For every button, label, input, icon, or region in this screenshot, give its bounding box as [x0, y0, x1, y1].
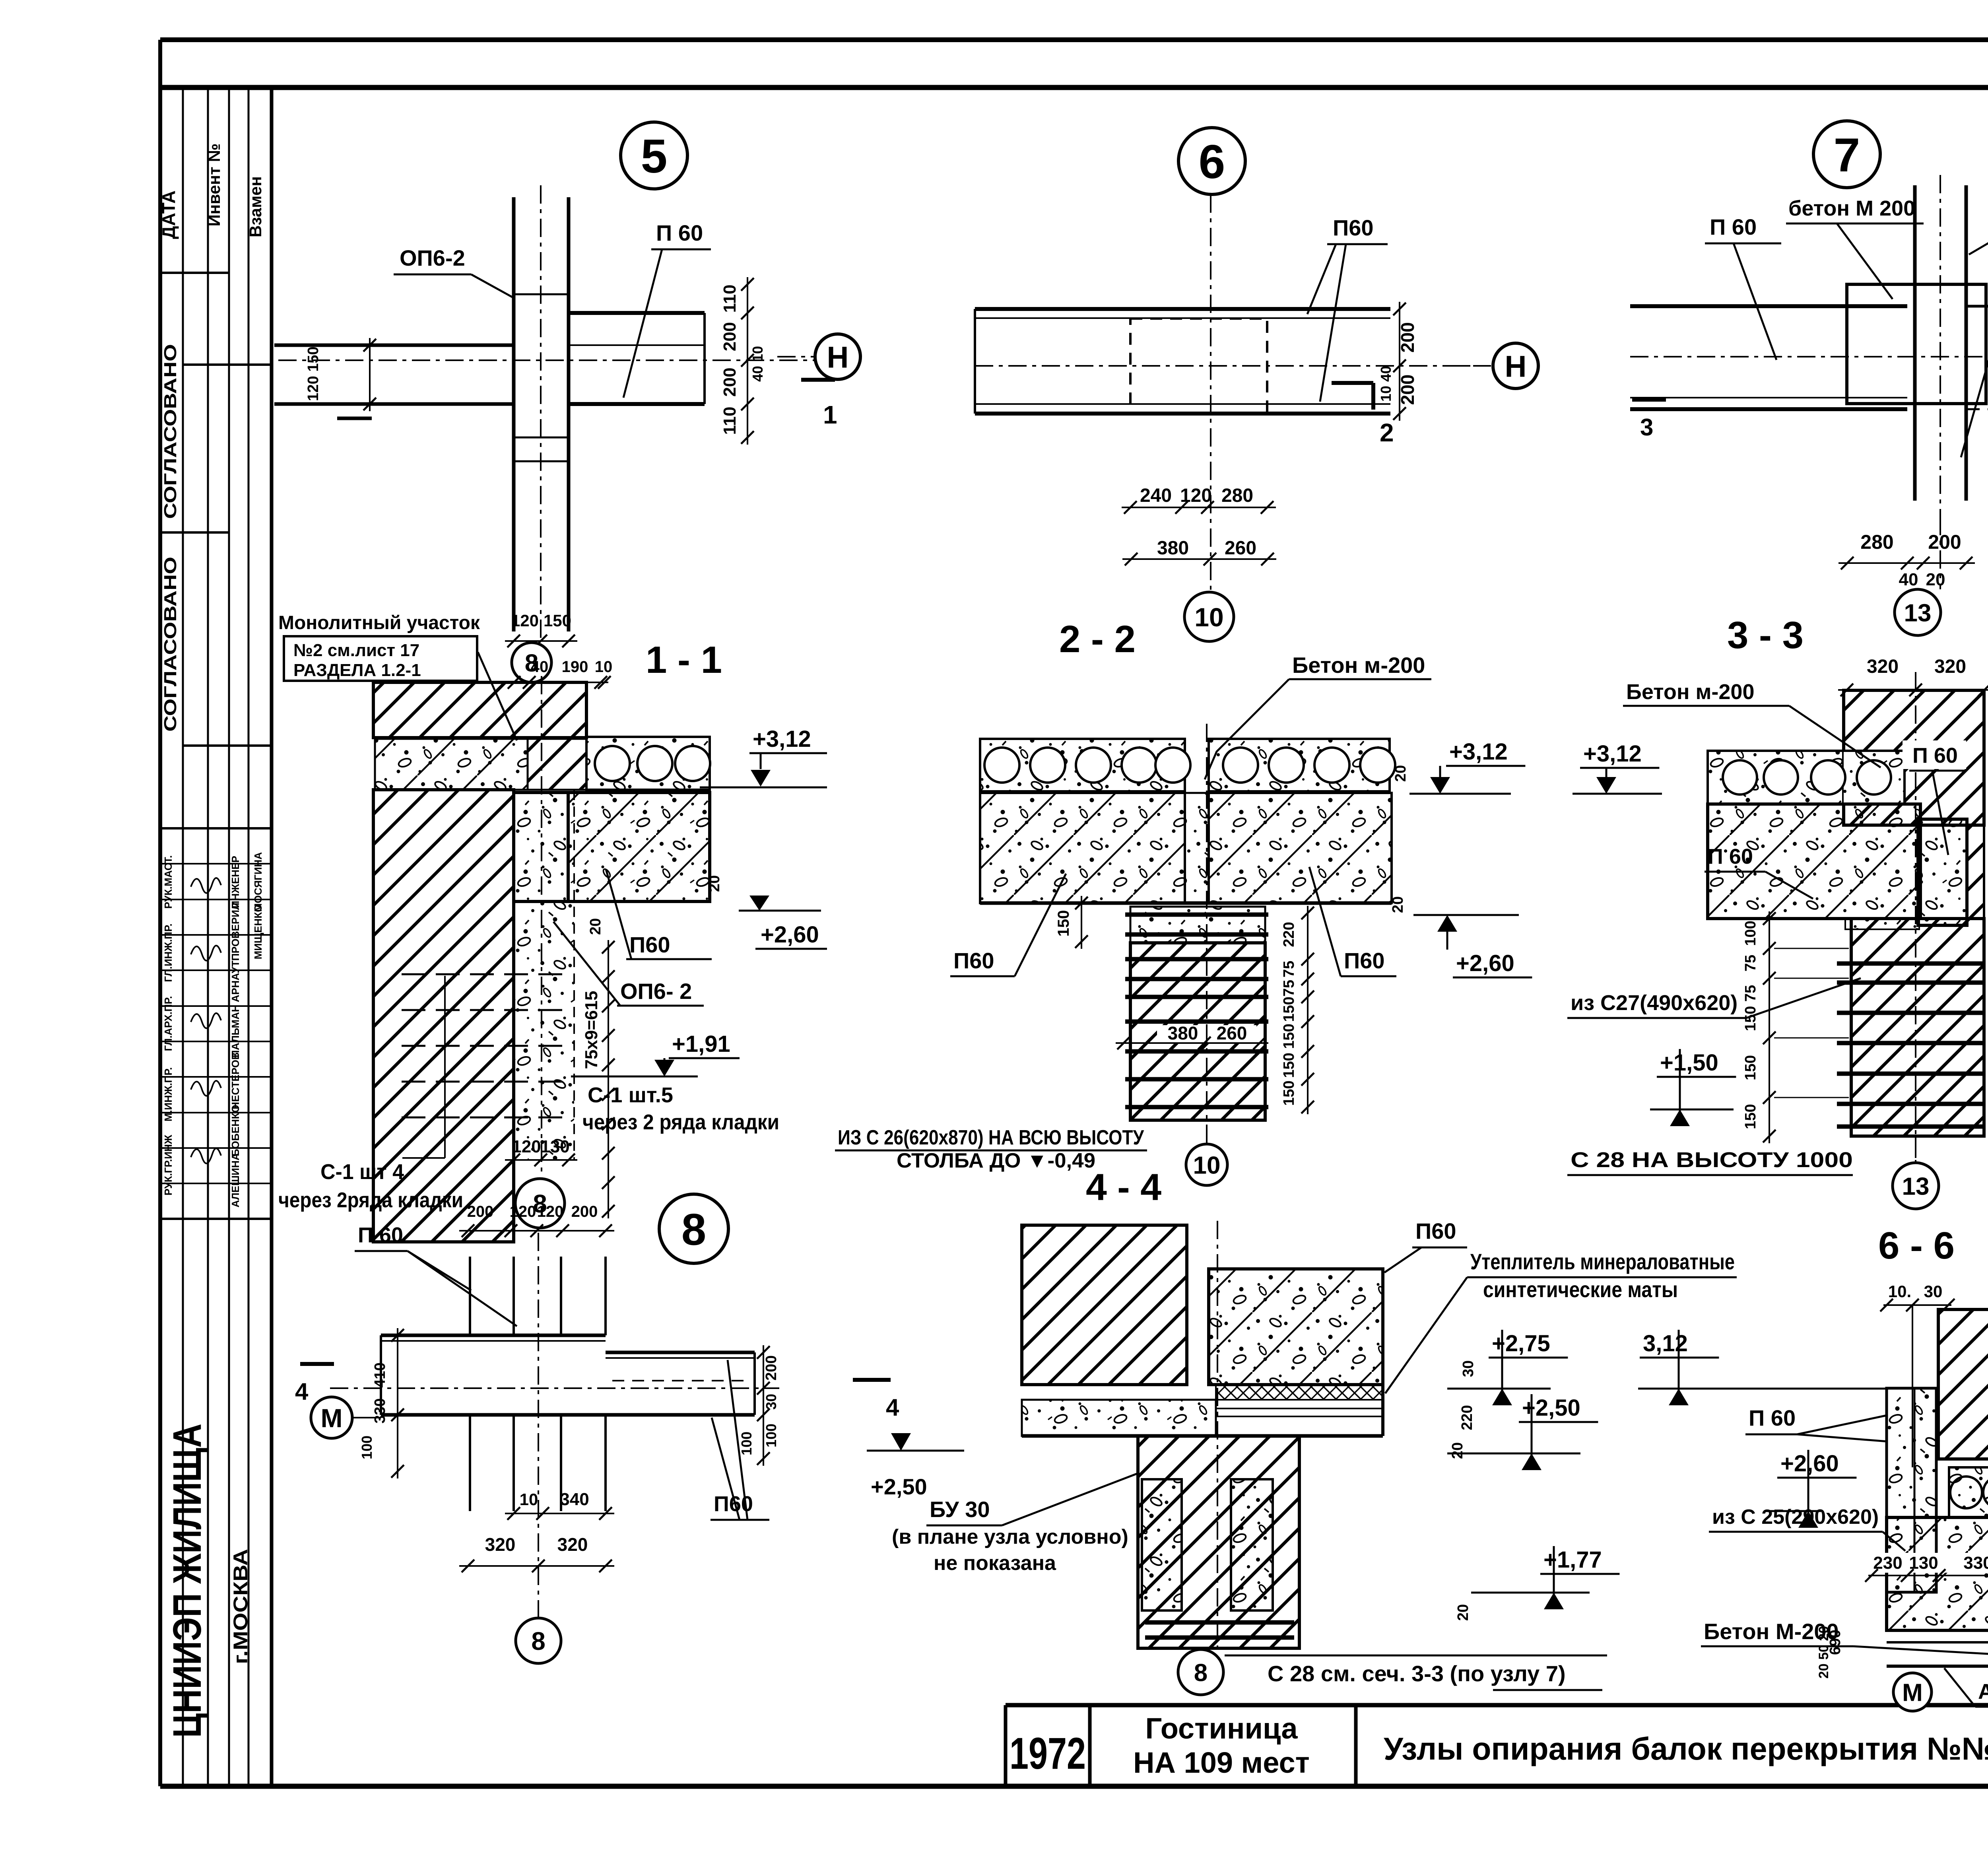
svg-text:13: 13: [1902, 1173, 1930, 1200]
svg-text:через 2ряда кладки: через 2ряда кладки: [278, 1188, 463, 1212]
svg-text:Бетон м-200: Бетон м-200: [1626, 680, 1755, 704]
svg-text:75: 75: [1281, 961, 1297, 977]
svg-text:200: 200: [763, 1355, 780, 1380]
svg-text:20: 20: [1455, 1604, 1472, 1621]
svg-text:1: 1: [823, 400, 837, 429]
svg-text:150: 150: [1281, 1053, 1297, 1078]
svg-text:380: 380: [1157, 538, 1189, 559]
svg-text:10: 10: [1194, 602, 1223, 632]
svg-text:8: 8: [1194, 1659, 1208, 1686]
svg-text:40: 40: [1899, 570, 1918, 589]
svg-text:120 150: 120 150: [305, 346, 322, 401]
svg-text:13: 13: [1904, 599, 1932, 627]
svg-text:П 60: П 60: [656, 220, 703, 245]
svg-text:Гостиница: Гостиница: [1145, 1712, 1298, 1745]
svg-text:75: 75: [1742, 955, 1759, 971]
svg-text:200: 200: [467, 1203, 494, 1220]
svg-text:Утеплитель минераловатные: Утеплитель минераловатные: [1470, 1249, 1735, 1274]
svg-text:220: 220: [1459, 1405, 1475, 1430]
svg-text:6 - 6: 6 - 6: [1878, 1224, 1955, 1267]
svg-text:С 28 НА ВЫСОТУ 1000: С 28 НА ВЫСОТУ 1000: [1571, 1148, 1853, 1172]
svg-text:110: 110: [720, 407, 740, 435]
svg-text:П60: П60: [953, 948, 994, 973]
svg-text:4 - 4: 4 - 4: [1086, 1166, 1161, 1208]
svg-text:П 60: П 60: [1912, 744, 1958, 767]
svg-text:75х9=615: 75х9=615: [582, 991, 601, 1069]
svg-text:+3,12: +3,12: [1449, 739, 1508, 765]
svg-text:200: 200: [720, 367, 740, 396]
svg-text:2 - 2: 2 - 2: [1059, 618, 1136, 661]
svg-text:3: 3: [1640, 414, 1653, 441]
svg-text:МИЩЕНКО: МИЩЕНКО: [252, 904, 264, 959]
svg-text:200: 200: [1928, 531, 1961, 553]
svg-text:П 60: П 60: [1708, 845, 1753, 868]
svg-text:М: М: [1902, 1679, 1923, 1706]
svg-text:150: 150: [1281, 1024, 1297, 1049]
svg-text:200: 200: [720, 322, 740, 351]
svg-text:П60: П60: [1333, 215, 1374, 240]
svg-text:200: 200: [571, 1203, 598, 1220]
svg-text:4: 4: [295, 1378, 309, 1405]
svg-text:Узлы опирания балок перекрыт: Узлы опирания балок перекрытия №№ 5,6,7,…: [1384, 1731, 1988, 1766]
svg-text:260: 260: [1217, 1023, 1247, 1043]
svg-text:340: 340: [560, 1490, 589, 1509]
svg-text:20: 20: [587, 918, 604, 935]
svg-text:320: 320: [557, 1534, 588, 1555]
svg-text:№2 см.лист 17: №2 см.лист 17: [293, 641, 419, 660]
svg-text:150: 150: [1742, 1104, 1759, 1129]
svg-text:6: 6: [1199, 135, 1225, 188]
svg-text:3 - 3: 3 - 3: [1727, 614, 1804, 657]
svg-text:100: 100: [359, 1436, 375, 1459]
svg-text:100: 100: [763, 1424, 779, 1447]
svg-text:30: 30: [1460, 1360, 1477, 1377]
svg-text:+2,60: +2,60: [761, 922, 819, 948]
svg-text:380: 380: [1168, 1023, 1198, 1043]
svg-text:из С 25(290х620): из С 25(290х620): [1712, 1506, 1879, 1529]
svg-text:120: 120: [511, 611, 539, 630]
svg-text:Инвент №: Инвент №: [205, 144, 223, 227]
svg-text:П 60: П 60: [1749, 1405, 1796, 1430]
svg-text:С-1 шт 4: С-1 шт 4: [320, 1160, 404, 1184]
svg-text:+1,77: +1,77: [1543, 1547, 1602, 1573]
svg-text:10 40: 10 40: [1378, 366, 1394, 402]
svg-text:280: 280: [1221, 485, 1253, 506]
svg-text:330: 330: [372, 1398, 388, 1423]
svg-text:П60: П60: [1344, 948, 1385, 973]
svg-text:ПАЛЬМАН: ПАЛЬМАН: [229, 1004, 241, 1057]
svg-text:ИНЖЕНЕР: ИНЖЕНЕР: [229, 856, 241, 908]
svg-text:СОГЛАСОВАНО: СОГЛАСОВАНО: [161, 344, 180, 519]
svg-text:8: 8: [531, 1627, 546, 1655]
svg-text:20: 20: [706, 875, 723, 892]
svg-text:330: 330: [1963, 1553, 1988, 1573]
svg-text:8: 8: [681, 1204, 706, 1254]
svg-text:СОГЛАСОВАНО: СОГЛАСОВАНО: [161, 557, 180, 732]
svg-text:Взамен: Взамен: [246, 176, 265, 237]
svg-text:ДАТА: ДАТА: [158, 190, 179, 239]
svg-text:320: 320: [1934, 656, 1966, 677]
svg-text:100: 100: [1742, 921, 1759, 946]
svg-text:МОСЯГИНА: МОСЯГИНА: [252, 852, 264, 912]
svg-text:через 2 ряда кладки: через 2 ряда кладки: [582, 1110, 779, 1134]
svg-text:+2,60: +2,60: [1780, 1451, 1839, 1476]
svg-text:190: 190: [562, 658, 588, 676]
svg-text:110: 110: [720, 285, 740, 313]
svg-text:ИЗ С 26(620х870) НА ВСЮ ВЫСОТУ: ИЗ С 26(620х870) НА ВСЮ ВЫСОТУ: [838, 1126, 1144, 1149]
svg-text:ГЛ.АРХ.ПР.: ГЛ.АРХ.ПР.: [162, 996, 174, 1051]
svg-text:150: 150: [1742, 1055, 1759, 1080]
svg-text:410: 410: [372, 1362, 388, 1387]
svg-text:75: 75: [1281, 980, 1297, 997]
svg-text:М: М: [321, 1403, 343, 1433]
svg-text:120: 120: [512, 1137, 541, 1156]
svg-text:С 28 см. сеч. 3-3 (по узлу: С 28 см. сеч. 3-3 (по узлу 7): [1268, 1661, 1566, 1686]
svg-text:ГЛ.ИНЖ.ПР.: ГЛ.ИНЖ.ПР.: [162, 923, 174, 982]
svg-text:БОБЕНКО: БОБЕНКО: [229, 1105, 241, 1156]
svg-text:10.: 10.: [1888, 1282, 1911, 1301]
svg-text:100: 100: [738, 1432, 755, 1455]
svg-text:150: 150: [1281, 1080, 1297, 1105]
svg-text:10: 10: [1193, 1152, 1221, 1179]
svg-text:синтетические маты: синтетические маты: [1483, 1277, 1678, 1302]
svg-text:Н: Н: [1505, 350, 1527, 383]
svg-text:Монолитный участок: Монолитный участок: [278, 612, 480, 633]
svg-text:320: 320: [1867, 656, 1899, 677]
svg-text:БУ 30: БУ 30: [930, 1497, 990, 1522]
svg-text:260: 260: [1225, 538, 1256, 559]
svg-text:10: 10: [520, 1490, 538, 1509]
svg-text:2: 2: [1380, 418, 1394, 447]
svg-text:П 60: П 60: [358, 1223, 403, 1247]
svg-text:280: 280: [1860, 531, 1893, 553]
svg-text:+1,50: +1,50: [1660, 1050, 1718, 1076]
svg-text:150: 150: [1281, 997, 1297, 1022]
svg-text:С-1 шт.5: С-1 шт.5: [588, 1083, 673, 1107]
svg-text:130: 130: [540, 1137, 569, 1156]
svg-text:РУК.МАСТ.: РУК.МАСТ.: [162, 855, 174, 909]
svg-text:+3,12: +3,12: [1583, 741, 1642, 767]
svg-text:320: 320: [485, 1534, 516, 1555]
svg-text:+2,50: +2,50: [871, 1474, 927, 1499]
svg-text:150: 150: [1055, 910, 1072, 937]
svg-text:30: 30: [1924, 1282, 1943, 1301]
svg-text:П 60: П 60: [1710, 214, 1757, 239]
svg-text:ЦНИИЭП ЖИЛИЩА: ЦНИИЭП ЖИЛИЩА: [165, 1424, 210, 1738]
svg-text:из С27(490х620): из С27(490х620): [1571, 991, 1738, 1015]
svg-text:Армирование см.сеч 5-5: Армирование см.сеч 5-5: [1978, 1680, 1988, 1704]
svg-text:ОП6-2: ОП6-2: [400, 245, 465, 270]
svg-text:40 10: 40 10: [749, 346, 766, 382]
svg-text:5: 5: [641, 130, 668, 183]
svg-text:П60: П60: [629, 932, 670, 957]
svg-text:200: 200: [1397, 322, 1418, 353]
svg-text:1 - 1: 1 - 1: [646, 639, 722, 681]
svg-text:240: 240: [1140, 485, 1172, 506]
svg-text:ПРОВЕРИЛ: ПРОВЕРИЛ: [229, 903, 241, 961]
svg-text:+2,75: +2,75: [1492, 1331, 1550, 1356]
svg-text:40: 40: [531, 658, 549, 676]
svg-text:690: 690: [1827, 1630, 1844, 1655]
svg-text:30: 30: [763, 1394, 779, 1410]
svg-text:120: 120: [510, 1203, 536, 1220]
svg-text:г.МОСКВА: г.МОСКВА: [229, 1549, 252, 1664]
svg-text:+1,91: +1,91: [672, 1031, 730, 1057]
svg-text:+2,60: +2,60: [1456, 950, 1514, 976]
svg-text:150 75: 150 75: [1742, 985, 1759, 1031]
svg-text:НА 109 мест: НА 109 мест: [1133, 1746, 1310, 1779]
svg-text:10: 10: [595, 658, 613, 676]
svg-text:НЕСТЕРОВ: НЕСТЕРОВ: [229, 1052, 241, 1109]
svg-text:ОП6- 2: ОП6- 2: [620, 979, 692, 1004]
svg-text:(в плане узла условно): (в плане узла условно): [892, 1525, 1128, 1548]
svg-text:АЛЕШИНА: АЛЕШИНА: [229, 1153, 241, 1207]
svg-text:150: 150: [544, 611, 571, 630]
svg-text:АРНАУТ: АРНАУТ: [229, 961, 241, 1002]
svg-text:Н: Н: [827, 340, 849, 374]
svg-text:120: 120: [537, 1203, 564, 1220]
svg-text:220: 220: [1281, 922, 1297, 947]
svg-text:4: 4: [886, 1394, 899, 1421]
svg-text:20: 20: [1449, 1442, 1466, 1459]
svg-text:РУК.ГР.ИНЖ: РУК.ГР.ИНЖ: [162, 1135, 174, 1195]
svg-text:не показана: не показана: [934, 1552, 1056, 1575]
svg-text:бетон М 200: бетон М 200: [1788, 196, 1915, 220]
svg-text:Бетон м-200: Бетон м-200: [1292, 653, 1425, 678]
svg-text:20: 20: [1926, 570, 1945, 589]
svg-text:7: 7: [1834, 128, 1860, 182]
svg-text:20: 20: [1392, 765, 1409, 782]
svg-text:+3,12: +3,12: [753, 726, 811, 752]
svg-text:200: 200: [1397, 375, 1418, 405]
svg-text:3,12: 3,12: [1643, 1331, 1688, 1356]
svg-text:П60: П60: [1415, 1218, 1456, 1243]
svg-text:М.ИНЖ.ПР.: М.ИНЖ.ПР.: [162, 1067, 174, 1121]
svg-text:СТОЛБА ДО ▼-0,49: СТОЛБА ДО ▼-0,49: [897, 1149, 1095, 1172]
svg-text:1972: 1972: [1010, 1729, 1086, 1778]
svg-text:20: 20: [1390, 896, 1406, 913]
svg-text:РАЗДЕЛА 1.2-1: РАЗДЕЛА 1.2-1: [293, 661, 421, 680]
